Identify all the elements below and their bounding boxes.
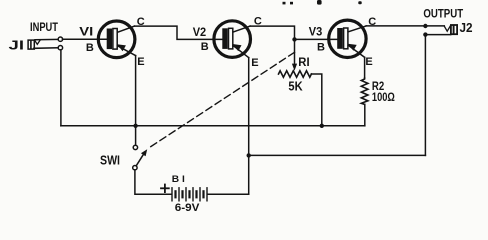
svg-text:5K: 5K (288, 78, 303, 93)
wire ground bus (61, 125, 365, 127)
junction V2 collector / R1 wiper (292, 37, 296, 41)
svg-text:E: E (365, 56, 372, 68)
svg-text:RI: RI (298, 55, 309, 69)
wire J1 sleeve down to bus (60, 50, 62, 126)
svg-text:JI: JI (9, 38, 25, 52)
wire R2 to bus (364, 104, 366, 125)
jack J2 (444, 25, 457, 34)
wire output sleeve to J2 (425, 34, 450, 36)
transistor V1 (98, 21, 135, 58)
svg-text:100Ω: 100Ω (372, 90, 395, 104)
svg-text:INPUT: INPUT (30, 22, 58, 34)
wire SW1 to battery positive (135, 170, 171, 194)
wire V2 emitter down to battery negative (248, 58, 250, 195)
junction output tip (423, 24, 427, 28)
wire J1 terminal to V1 base (63, 38, 109, 40)
wire V1 emitter down to bus (135, 56, 137, 126)
jack J1 (28, 40, 40, 49)
junction output sleeve (423, 32, 427, 36)
switch SW1 (133, 126, 148, 170)
wire J1 sleeve to terminal (34, 47, 58, 50)
transistor V3 (329, 20, 367, 57)
svg-text:6-9V: 6-9V (175, 202, 200, 212)
svg-text:B: B (86, 42, 94, 54)
svg-text:B: B (317, 41, 325, 53)
battery B1 (172, 188, 207, 201)
svg-text:J2: J2 (460, 21, 473, 35)
wire output sleeve down to return line (424, 35, 426, 156)
polarity label + (161, 185, 169, 193)
potentiometer R1 wiper arrow (292, 39, 297, 70)
svg-text:B: B (201, 41, 209, 53)
transistor V2 (214, 21, 251, 58)
svg-text:E: E (251, 57, 258, 69)
svg-text:V3: V3 (309, 24, 323, 38)
dashed mechanical link SW1 to R1 (148, 52, 295, 149)
wire J1 tip to terminal (35, 38, 58, 40)
wire V3 emitter to R2 (364, 57, 366, 78)
wire battery negative to V2 emitter (208, 193, 249, 195)
svg-text:B I: B I (172, 174, 185, 185)
junction V1 emitter / bus / SW1 (133, 124, 137, 128)
terminal: J1 sleeve open circle (58, 46, 62, 50)
junction V2 emitter / output return (247, 153, 251, 157)
svg-text:V2: V2 (193, 25, 207, 39)
junction R1 / bus (320, 124, 324, 128)
resistor R2 (361, 78, 368, 104)
wire output return line (249, 154, 426, 156)
svg-text:SWI: SWI (100, 153, 120, 167)
svg-text:VI: VI (79, 24, 93, 38)
svg-text:OUTPUT: OUTPUT (423, 8, 463, 20)
wire R1 to bus (311, 74, 321, 126)
svg-text:E: E (137, 56, 144, 68)
terminal: J1 tip open circle (58, 37, 62, 41)
wire V2 collector to V3 base (250, 26, 337, 39)
resistor R1 (potentiometer) (279, 71, 312, 77)
wire V3 collector to output (366, 25, 444, 27)
wire V1 collector to V2 base (135, 26, 223, 39)
